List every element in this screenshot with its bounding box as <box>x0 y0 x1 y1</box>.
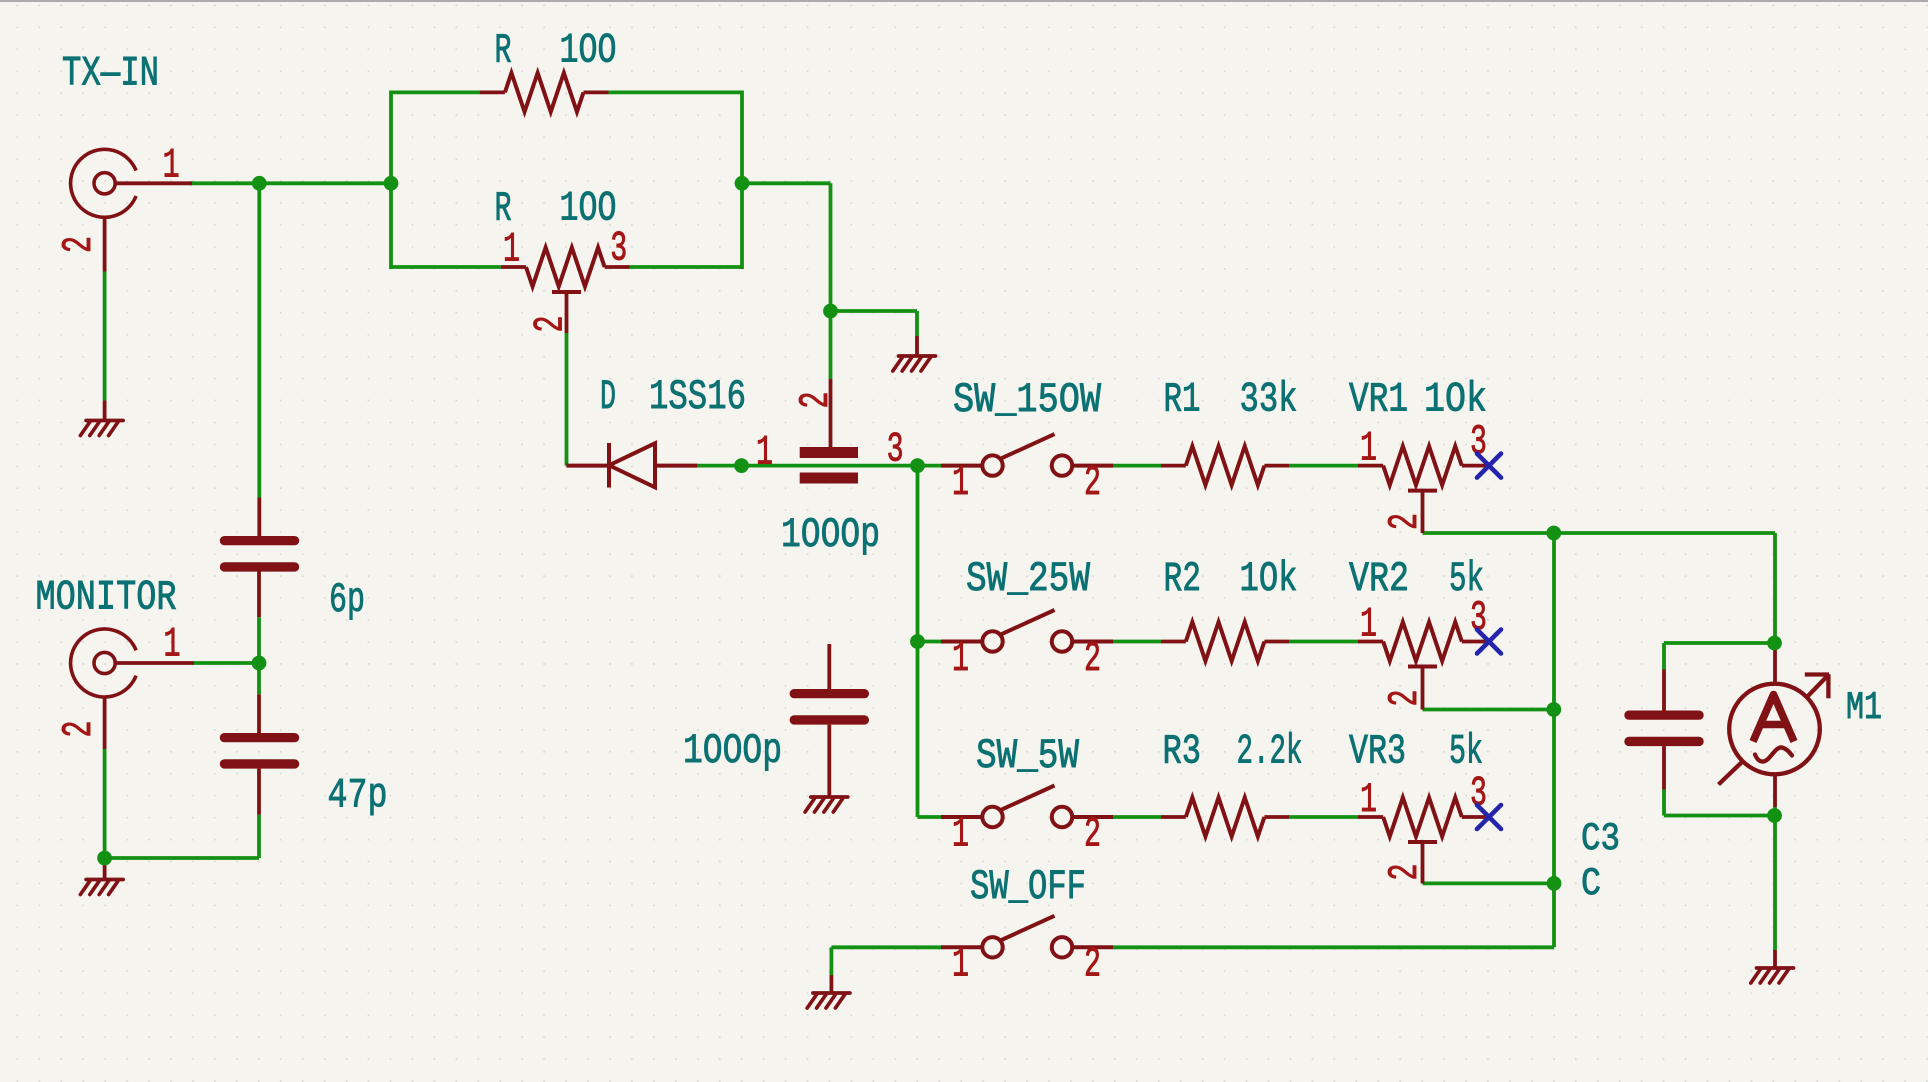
svg-text:1OO: 1OO <box>560 27 617 75</box>
feedthrough capacitor 1000p plates <box>800 447 858 484</box>
svg-text:R1: R1 <box>1164 376 1201 424</box>
potentiometer VR3 wiper tap <box>1408 842 1437 883</box>
wire MONITOR pin1 <box>194 661 259 665</box>
svg-text:1SS16: 1SS16 <box>649 373 746 421</box>
svg-text:47p: 47p <box>328 772 388 820</box>
connector J2 MONITOR pin2 lead <box>103 696 107 749</box>
svg-text:VR3: VR3 <box>1349 728 1406 776</box>
wire bottom-left ground run <box>105 856 259 860</box>
junction diode output node <box>734 458 749 473</box>
potentiometer VR2 5k body <box>1358 622 1489 661</box>
svg-text:SW_OFF: SW_OFF <box>970 863 1086 911</box>
ground below MONITOR <box>80 880 123 895</box>
wire C 47p down <box>257 815 261 858</box>
svg-text:M1: M1 <box>1846 686 1882 730</box>
svg-text:1OO: 1OO <box>560 185 617 233</box>
wire SW_25W to R2 <box>1113 640 1161 644</box>
wire SW_OFF left drop to ground <box>830 947 834 975</box>
svg-text:2: 2 <box>527 316 575 333</box>
svg-text:R: R <box>495 27 512 75</box>
svg-text:2: 2 <box>1381 513 1429 530</box>
wire TX-IN junction down to C 6p <box>257 183 261 497</box>
ground below TX-IN <box>80 421 123 436</box>
wire top branch left <box>391 91 480 95</box>
svg-text:2: 2 <box>55 721 103 738</box>
svg-text:SW_25W: SW_25W <box>966 555 1091 603</box>
capacitor C 6p top stem <box>257 498 261 537</box>
wire row2 bus to SW_25W <box>918 640 942 644</box>
svg-text:VR1: VR1 <box>1349 376 1408 424</box>
capacitor 1000p shunt stem bottom <box>827 725 831 796</box>
wire bottom branch right <box>630 265 743 269</box>
svg-text:2: 2 <box>1084 635 1101 683</box>
ground stub below MONITOR <box>103 858 107 879</box>
wire SW_150W to R1 <box>1113 464 1161 468</box>
svg-text:2: 2 <box>1381 864 1429 881</box>
ground stub below SW_OFF <box>830 975 834 992</box>
capacitor C 47p bottom stem <box>257 769 261 815</box>
ground stub below M1 <box>1773 950 1777 967</box>
connector J1 TX-IN pin1 lead <box>114 181 192 185</box>
svg-text:1Ok: 1Ok <box>1240 555 1298 603</box>
no-connect on VR1 pin 3 <box>1477 454 1501 478</box>
wire C3 top branch <box>1664 641 1775 645</box>
junction VR1 tap bus <box>1546 526 1561 541</box>
potentiometer R 100 wiper tap <box>552 292 581 333</box>
capacitor C3 plates <box>1624 711 1703 747</box>
wire diode to SW_150W row <box>697 464 941 468</box>
wire SW_5W to R3 <box>1113 815 1161 819</box>
resistor R1 33k <box>1161 446 1289 485</box>
ground stub mid-top <box>915 336 919 355</box>
wire TX-IN pin2 down <box>103 271 107 401</box>
junction M1 top node <box>1767 636 1782 651</box>
wire ground branch drop <box>915 311 919 336</box>
no-connect on VR2 pin 3 <box>1477 630 1501 654</box>
svg-text:2: 2 <box>1084 459 1101 507</box>
meter M1 bottom lead <box>1773 774 1777 808</box>
svg-text:3: 3 <box>887 426 904 474</box>
wire M1 bottom to ground <box>1773 807 1777 950</box>
svg-text:D: D <box>600 373 616 421</box>
ground below M1 <box>1751 968 1794 983</box>
feedthrough capacitor 1000p pin2 stem <box>829 379 833 447</box>
junction MONITOR ground node <box>97 851 112 866</box>
capacitor C3 bottom stem <box>1662 746 1666 789</box>
wire SW_OFF left segment <box>831 945 941 949</box>
no-connect on VR3 pin 3 <box>1477 805 1501 829</box>
switch SW_5W <box>941 786 1113 828</box>
connector J1 TX-IN BNC <box>71 149 137 217</box>
svg-text:1: 1 <box>503 226 520 274</box>
wire top-right corner down to M1 <box>1773 533 1777 650</box>
wire TX-IN pin1 to parallel-R box <box>190 181 391 185</box>
connector J2 MONITOR BNC <box>71 629 137 697</box>
junction VR2 tap bus <box>1546 702 1561 717</box>
svg-text:SW_5W: SW_5W <box>976 732 1080 780</box>
wire left side of parallel-R box <box>389 91 393 270</box>
svg-text:1Ok: 1Ok <box>1424 376 1487 424</box>
svg-text:1OOOp: 1OOOp <box>683 727 782 775</box>
wire R3 to VR3 <box>1289 815 1358 819</box>
wire VR3 tap to bus <box>1423 882 1555 886</box>
switch SW_OFF <box>941 916 1113 958</box>
svg-text:1: 1 <box>952 635 969 683</box>
junction VR3 tap bus <box>1547 876 1562 891</box>
svg-text:MONITOR: MONITOR <box>36 574 177 622</box>
wire C3 bottom branch <box>1664 814 1775 818</box>
junction left of parallel-R box <box>384 176 399 191</box>
switch SW_150W <box>941 434 1113 476</box>
svg-text:C3: C3 <box>1581 817 1620 861</box>
capacitor C 47p top stem <box>257 694 261 733</box>
connector J2 MONITOR pin1 lead <box>114 661 194 665</box>
junction right of parallel-R box <box>735 176 750 191</box>
capacitor C3 top stem <box>1662 670 1666 711</box>
resistor R3 2.2k <box>1161 798 1289 837</box>
svg-text:1: 1 <box>952 459 969 507</box>
wire right vertical bus <box>1552 533 1556 947</box>
junction M1 bottom node <box>1767 808 1782 823</box>
ground below shunt capacitor <box>805 797 848 812</box>
wire C3 top drop <box>1662 643 1666 670</box>
wire MONITOR junction to C 47p <box>257 663 261 694</box>
svg-text:2.2k: 2.2k <box>1237 728 1303 776</box>
wire SW_OFF to right bus <box>1113 945 1554 949</box>
svg-text:1: 1 <box>1360 600 1377 648</box>
wire R2 to VR2 <box>1289 640 1358 644</box>
svg-text:R3: R3 <box>1163 728 1202 776</box>
ground mid-top <box>893 356 936 371</box>
svg-text:1OOOp: 1OOOp <box>781 511 880 559</box>
connector J1 TX-IN pin2 lead <box>103 216 107 272</box>
potentiometer VR3 5k body <box>1358 798 1489 837</box>
capacitor 1000p shunt stem top <box>827 644 831 689</box>
junction mid drop corner <box>823 304 838 319</box>
junction MONITOR node <box>252 656 267 671</box>
wire row3 bus corner to SW_5W <box>918 815 942 819</box>
wire VR2 tap to bus <box>1423 708 1554 712</box>
svg-text:1: 1 <box>952 941 969 989</box>
svg-text:1: 1 <box>952 811 969 859</box>
svg-text:TX—IN: TX—IN <box>62 50 159 98</box>
ground below SW_OFF <box>807 993 850 1008</box>
svg-text:SW_15OW: SW_15OW <box>953 376 1102 424</box>
svg-text:2: 2 <box>792 392 840 409</box>
wire R1 to VR1 <box>1289 464 1358 468</box>
wire pot tap down to diode row <box>565 333 569 466</box>
wire bottom branch left <box>391 265 501 269</box>
ground stub below TX-IN <box>103 401 107 420</box>
capacitor 1000p shunt plates <box>790 689 869 725</box>
wire C 6p to MONITOR junction <box>257 617 261 663</box>
potentiometer VR1 wiper tap <box>1408 491 1437 533</box>
svg-text:2: 2 <box>1381 690 1429 707</box>
meter M1 letter A <box>1753 695 1794 742</box>
meter M1 top lead <box>1773 650 1777 685</box>
diode D 1SS16 <box>567 443 698 488</box>
potentiometer VR1 10k body <box>1358 446 1489 485</box>
potentiometer VR2 wiper tap <box>1408 667 1437 710</box>
svg-text:3: 3 <box>610 225 627 273</box>
wire mid vertical bus <box>916 466 920 817</box>
resistor R2 10k <box>1161 622 1289 661</box>
svg-text:1: 1 <box>1360 424 1377 472</box>
svg-text:2: 2 <box>1084 811 1101 859</box>
capacitor C 6p bottom stem <box>257 571 261 617</box>
capacitor C 47p plates <box>220 733 299 769</box>
capacitor C 6p plates <box>220 536 299 572</box>
svg-text:1: 1 <box>163 142 180 190</box>
wire tap bus to top-right corner <box>1554 531 1775 535</box>
wire C3 bottom drop <box>1662 790 1666 816</box>
wire VR1 tap to bus <box>1423 531 1554 535</box>
svg-text:2: 2 <box>55 236 103 253</box>
svg-text:R2: R2 <box>1164 555 1202 603</box>
svg-text:5k: 5k <box>1449 728 1483 776</box>
junction row1 at bus <box>910 458 925 473</box>
svg-text:1: 1 <box>164 621 181 669</box>
svg-text:VR2: VR2 <box>1349 555 1409 603</box>
svg-text:C: C <box>1581 862 1601 906</box>
junction row2 at bus <box>910 634 925 649</box>
wire MONITOR pin2 down <box>103 749 107 859</box>
wire down to mid junction <box>829 183 833 379</box>
resistor R 100 top <box>480 73 609 112</box>
switch SW_25W <box>941 610 1113 652</box>
meter M1 body <box>1719 674 1830 784</box>
svg-text:2: 2 <box>1084 941 1101 989</box>
junction at TX-IN node <box>252 176 267 191</box>
wire top branch right <box>609 91 743 95</box>
wire box to corner <box>742 181 831 185</box>
wire mid junction to ground branch <box>831 309 918 313</box>
svg-text:1: 1 <box>1360 776 1377 824</box>
wire right side of parallel-R box <box>740 91 744 270</box>
svg-text:1: 1 <box>756 429 773 477</box>
svg-text:33k: 33k <box>1240 376 1298 424</box>
svg-text:6p: 6p <box>329 576 365 624</box>
potentiometer R 100 body <box>501 248 630 287</box>
